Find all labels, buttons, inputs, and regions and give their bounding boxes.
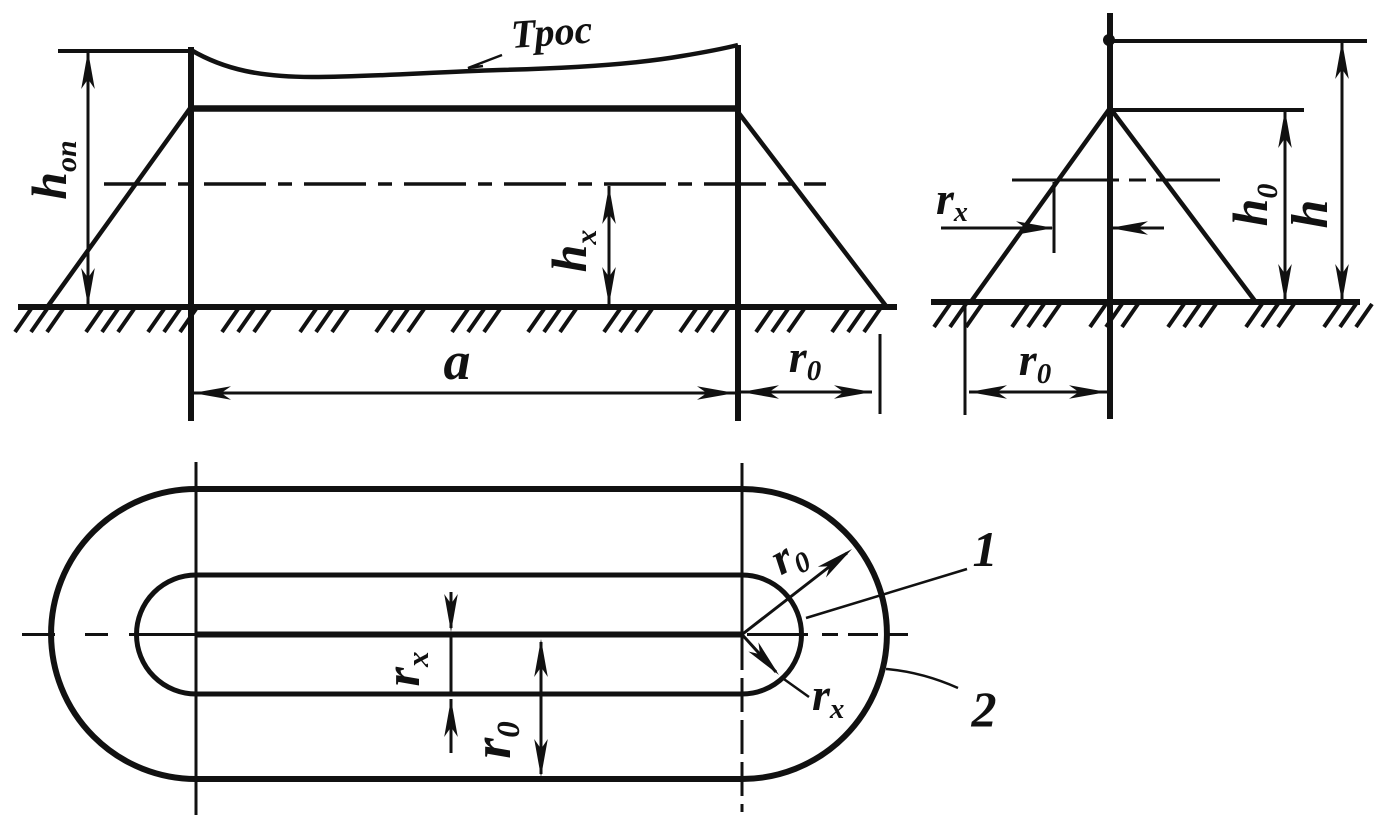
protection-zone top line at wire height h0: [191, 105, 738, 112]
dimension a (span): [193, 392, 735, 395]
leader line 2: [886, 669, 958, 688]
svg-text:1: 1: [973, 521, 998, 577]
inner zone contour at hx (1): [137, 575, 802, 694]
extension line r0 left view: [879, 334, 882, 414]
left cone boundary: [970, 108, 1110, 303]
svg-text:Трос: Трос: [509, 6, 593, 57]
left mast: [188, 47, 194, 421]
extension line at zone top h0: [1110, 108, 1304, 112]
dimension h_x vertical arrow: [608, 186, 611, 305]
wire (Tros) sag curve: [191, 45, 738, 77]
ground hatching left view: [15, 309, 31, 332]
radial arrow r0 to outer contour: [742, 553, 847, 635]
right cone boundary: [1110, 108, 1255, 301]
outer protection zone contour (2): [51, 489, 887, 779]
dash-dot level line hx: [104, 182, 826, 185]
left zone boundary diagonal: [48, 107, 191, 306]
dimension h vertical: [1341, 43, 1344, 300]
dash-dot level line hx end view: [1012, 179, 1119, 182]
ground line left view: [18, 304, 897, 310]
ground hatching end view: [934, 304, 950, 327]
extension line r0 end view: [964, 306, 967, 415]
leader line 1: [806, 569, 967, 618]
svg-text:2: 2: [971, 681, 997, 737]
dimension r0 plan (vertical): [540, 642, 543, 774]
dimension r0 end view: [969, 391, 1107, 394]
extension line top-left (hop datum): [58, 49, 191, 53]
centre dash-dot axis: [22, 633, 55, 636]
dimension rx plan (vertical): [450, 592, 453, 628]
leader to rx label: [781, 677, 809, 697]
right zone boundary diagonal: [738, 112, 886, 306]
right mast axis plan: [741, 463, 744, 636]
svg-text:h: h: [1282, 200, 1339, 229]
wire position dot: [1103, 34, 1115, 46]
leader line from Tros label to wire: [468, 55, 502, 68]
dimension r0 left view: [741, 391, 872, 394]
dimension h_op vertical arrow: [87, 53, 90, 304]
ground line end view: [931, 299, 1360, 305]
radial arrow rx to inner contour: [742, 635, 776, 673]
extension tick at rx: [1053, 182, 1056, 253]
dimension rx end view: [941, 227, 1052, 230]
right mast: [735, 45, 741, 421]
mast end view: [1107, 13, 1113, 419]
dimension h0 vertical: [1284, 112, 1287, 300]
svg-text:a: a: [444, 331, 471, 391]
extension line at wire top h: [1110, 39, 1367, 43]
left mast axis plan: [195, 462, 198, 815]
wire in plan (thick centre line): [196, 632, 742, 638]
